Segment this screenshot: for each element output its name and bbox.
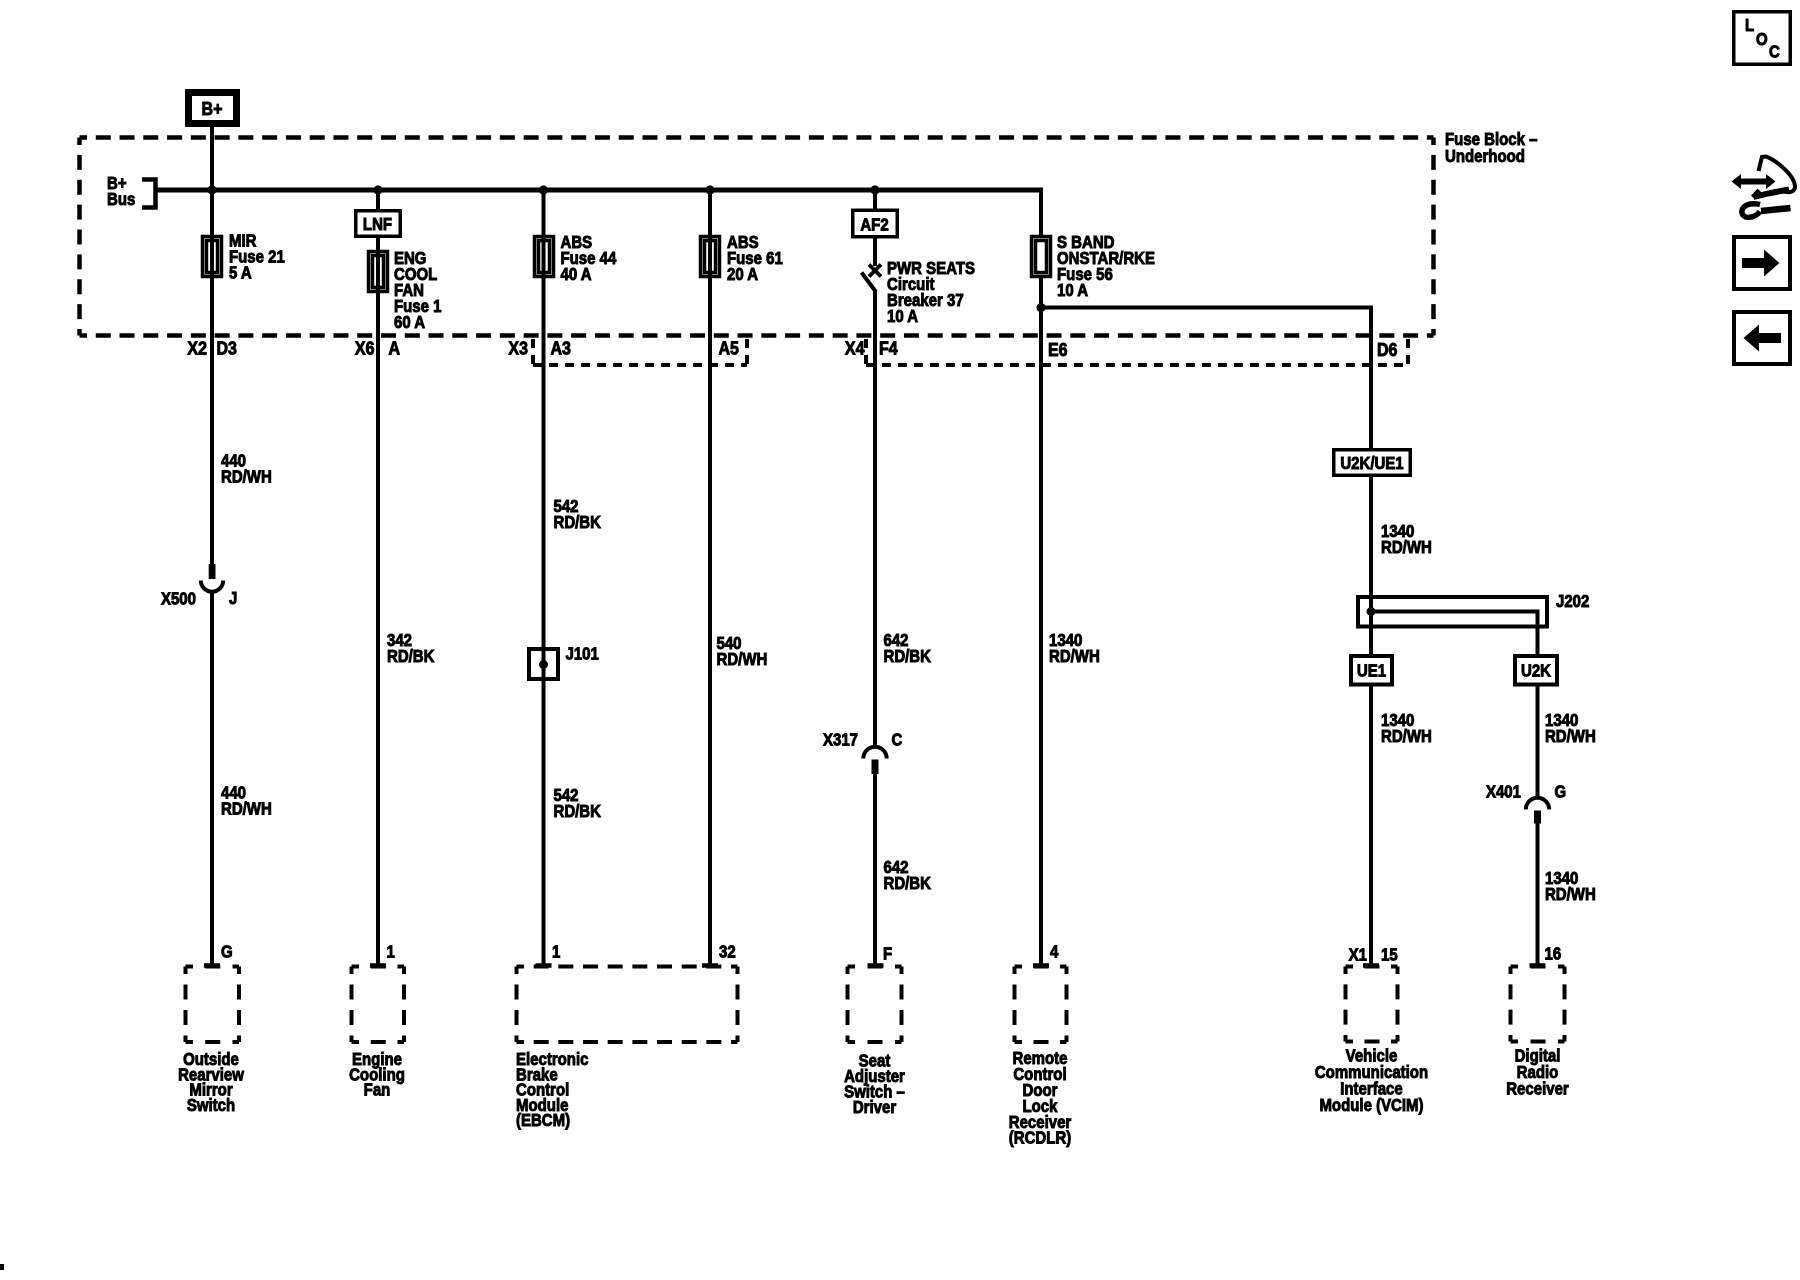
label ABS Fuse 61 20A (727, 233, 783, 284)
wire bus corner to fuse 56 (1039, 188, 1043, 237)
wire J202 internal to U2K (1371, 612, 1538, 657)
svg-text:C: C (1769, 43, 1780, 62)
svg-text:RD/WH: RD/WH (221, 468, 272, 487)
svg-text:UE1: UE1 (1357, 662, 1386, 681)
icon page jump squiggle (1732, 157, 1796, 218)
wire U2K to X401 (1536, 685, 1540, 799)
svg-text:Module (VCIM): Module (VCIM) (1319, 1096, 1423, 1115)
wire label 540 RD/WH (717, 634, 768, 669)
node B+ Bus label (107, 174, 135, 209)
svg-text:X2: X2 (187, 337, 207, 358)
component box VCIM (1346, 967, 1398, 1042)
wire bus to EBCM pin 32 (708, 190, 712, 964)
name Seat Adjuster Switch - Driver (844, 1052, 905, 1118)
fuse holder AF2 box (853, 210, 898, 237)
fuse block underhood dashed box (80, 138, 1434, 336)
terminal tick seat switch (868, 963, 884, 968)
name Outside Rearview Mirror Switch (178, 1050, 244, 1115)
svg-text:20 A: 20 A (727, 265, 758, 284)
svg-text:RD/BK: RD/BK (554, 802, 602, 821)
junction at AF2 drop (870, 185, 879, 194)
svg-text:LNF: LNF (363, 215, 392, 234)
fuse F21 MIR symbol (203, 237, 222, 277)
svg-text:1: 1 (552, 943, 560, 962)
svg-text:32: 32 (719, 943, 736, 962)
svg-text:RD/WH: RD/WH (1049, 647, 1100, 666)
icon back arrow box (1734, 312, 1790, 364)
wire B+ bus horizontal (156, 188, 1042, 193)
name Electronic Brake Control Module (EBCM) (516, 1050, 588, 1130)
junction at ABS44 drop (539, 185, 548, 194)
name Vehicle Communication Interface Module (VCIM) (1315, 1047, 1428, 1116)
label Fuse Block - Underhood (1445, 130, 1537, 166)
junction inside J202 (1367, 607, 1376, 616)
svg-text:(RCDLR): (RCDLR) (1009, 1129, 1071, 1148)
component box RCDLR (1015, 967, 1067, 1043)
terminal tick RCDLR (1033, 963, 1049, 968)
svg-text:L: L (1745, 16, 1754, 35)
wire U2K/UE1 to J202 (1369, 476, 1373, 598)
power symbol B+ (189, 93, 237, 124)
circuit breaker CB37 contact mark (869, 265, 881, 277)
wire label 642 RD/BK lower (884, 858, 932, 893)
terminal tick fan (370, 963, 386, 968)
fuse F1 ENG COOL FAN symbol (369, 252, 388, 292)
svg-text:A3: A3 (551, 337, 571, 358)
svg-text:(EBCM): (EBCM) (516, 1111, 570, 1130)
net label box UE1 (1351, 656, 1392, 685)
svg-text:RD/WH: RD/WH (1381, 727, 1432, 746)
svg-text:Fan: Fan (364, 1081, 391, 1100)
svg-text:RD/WH: RD/WH (717, 650, 768, 669)
connector strip A3-A5 dotted box (533, 339, 747, 365)
svg-text:G: G (1555, 782, 1567, 801)
label ABS Fuse 44 40A (561, 233, 617, 284)
wire label 440 RD/WH upper (221, 452, 272, 487)
svg-text:X500: X500 (161, 590, 196, 609)
wire label 542 RD/BK upper (554, 497, 602, 532)
svg-text:C: C (892, 731, 903, 750)
component box Outside Rearview Mirror Switch (186, 967, 240, 1043)
svg-text:16: 16 (1545, 945, 1562, 964)
svg-text:Receiver: Receiver (1506, 1080, 1569, 1099)
wire label 1340 RD/WH (radio) (1545, 869, 1596, 904)
wire breaker to X317 (873, 291, 877, 747)
fuse F61 ABS symbol (701, 237, 720, 277)
component box EBCM (517, 967, 738, 1043)
icon LOC box (1734, 12, 1791, 65)
svg-text:RD/WH: RD/WH (1545, 727, 1596, 746)
name Digital Radio Receiver (1506, 1047, 1569, 1099)
wire label 542 RD/BK lower (554, 786, 602, 821)
svg-text:A5: A5 (719, 337, 740, 358)
svg-text:X317: X317 (823, 731, 858, 750)
terminal tick radio (1530, 963, 1546, 968)
svg-text:F4: F4 (879, 337, 898, 358)
connector X317 symbol (863, 747, 886, 774)
svg-text:E6: E6 (1048, 339, 1068, 360)
svg-text:RD/BK: RD/BK (387, 647, 435, 666)
svg-text:Bus: Bus (107, 190, 135, 209)
svg-text:Driver: Driver (853, 1098, 897, 1117)
icon forward arrow box (1734, 237, 1790, 289)
page speck bottom left (0, 1264, 4, 1270)
svg-text:4: 4 (1050, 943, 1058, 962)
svg-text:10 A: 10 A (887, 307, 918, 326)
terminal tick G (204, 963, 220, 968)
terminal tick VCIM (1363, 963, 1379, 968)
terminal tick EBCM pin 32 (702, 963, 718, 968)
svg-text:X1: X1 (1349, 946, 1367, 965)
component box Digital Radio Receiver (1511, 967, 1565, 1042)
svg-text:B+: B+ (202, 98, 223, 119)
wire label 342 RD/BK (387, 631, 435, 666)
wire label 440 RD/WH lower (221, 784, 272, 819)
svg-text:G: G (221, 943, 233, 962)
svg-text:40 A: 40 A (561, 265, 592, 284)
junction at LNF drop (373, 185, 382, 194)
svg-text:A: A (389, 337, 401, 358)
wire label 1340 RD/WH (VCIM upper) (1381, 522, 1432, 557)
wire bus to LNF (376, 190, 380, 210)
svg-text:1: 1 (387, 943, 395, 962)
net label box U2K/UE1 (1334, 450, 1411, 476)
B+ Bus bracket (142, 180, 156, 208)
svg-text:J101: J101 (566, 645, 599, 664)
wire LNF to fuse 1 (376, 236, 380, 964)
svg-text:RD/BK: RD/BK (884, 647, 932, 666)
terminal tick EBCM pin 1 (536, 963, 552, 968)
wire AF2 to breaker (873, 237, 877, 267)
svg-text:X4: X4 (845, 337, 865, 358)
junction at 1340 branch (1036, 303, 1045, 312)
splice J101 (529, 649, 558, 679)
svg-text:15: 15 (1381, 946, 1398, 965)
wire fuse 56 to RCDLR (1039, 276, 1043, 964)
svg-text:Switch: Switch (187, 1096, 235, 1115)
wire bus to AF2 (873, 190, 877, 210)
wire bus to EBCM pin 1 (542, 190, 546, 964)
svg-text:J202: J202 (1556, 592, 1589, 611)
svg-text:J: J (229, 589, 237, 608)
wire branch to VCIM feed (1041, 308, 1371, 450)
component box Seat Adjuster Switch Driver (848, 967, 902, 1043)
wire label 1340 RD/WH (RCDLR) (1049, 631, 1100, 666)
svg-text:D6: D6 (1377, 339, 1397, 360)
wire UE1 to VCIM (1369, 685, 1373, 965)
connector strip F4-D6 dotted box (866, 339, 1408, 365)
svg-text:60 A: 60 A (394, 313, 425, 332)
connector X500 symbol (201, 564, 223, 592)
svg-text:X6: X6 (355, 337, 375, 358)
splice pack J202 (1358, 597, 1547, 627)
svg-text:U2K: U2K (1521, 662, 1551, 681)
wire X317 to seat switch (873, 774, 877, 964)
wire label 1340 RD/WH (U2K) (1545, 711, 1596, 746)
svg-text:Underhood: Underhood (1445, 147, 1525, 166)
wire X500 to mirror switch (210, 592, 214, 965)
wire B+ terminal to fuse 21 (210, 127, 214, 564)
label MIR Fuse 21 5A (229, 231, 285, 282)
svg-text:RD/BK: RD/BK (884, 874, 932, 893)
svg-text:D3: D3 (217, 337, 237, 358)
label ENG COOL FAN Fuse 1 60A (394, 249, 441, 332)
svg-text:O: O (1756, 30, 1768, 49)
fuse holder LNF box (356, 211, 401, 237)
wire X401 to radio receiver (1536, 823, 1540, 964)
wire label 1340 RD/WH (UE1) (1381, 711, 1432, 746)
name Engine Cooling Fan (349, 1050, 405, 1100)
svg-text:5 A: 5 A (229, 263, 252, 282)
svg-text:U2K/UE1: U2K/UE1 (1340, 454, 1403, 473)
svg-text:RD/WH: RD/WH (1545, 885, 1596, 904)
junction at B+ drop (207, 185, 216, 194)
svg-text:X401: X401 (1486, 782, 1521, 801)
net label box U2K (1515, 656, 1557, 685)
fuse F56 S BAND symbol (1032, 237, 1051, 277)
name Remote Control Door Lock Receiver (RCDLR) (1009, 1049, 1072, 1148)
svg-text:RD/WH: RD/WH (1381, 538, 1432, 557)
wire through J202 to UE1 (1369, 597, 1373, 656)
svg-text:RD/BK: RD/BK (554, 513, 602, 532)
svg-text:RD/WH: RD/WH (221, 800, 272, 819)
junction at ABS61 drop (705, 185, 714, 194)
svg-text:AF2: AF2 (860, 216, 888, 235)
component box Engine Cooling Fan (352, 967, 405, 1043)
svg-text:X3: X3 (508, 337, 528, 358)
svg-text:10 A: 10 A (1057, 281, 1088, 300)
label PWR SEATS Circuit Breaker 37 10A (887, 259, 975, 326)
circuit breaker CB37 blade (862, 273, 877, 293)
fuse F44 ABS symbol (535, 237, 554, 277)
svg-text:F: F (883, 945, 892, 964)
label S BAND ONSTAR/RKE Fuse 56 10A (1057, 233, 1155, 300)
connector X401 symbol (1526, 798, 1549, 824)
wire label 642 RD/BK upper (884, 631, 932, 666)
